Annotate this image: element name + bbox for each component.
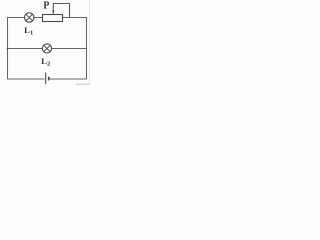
rheostat slider wire loop: [53, 4, 70, 18]
battery long plate (+): [45, 73, 47, 85]
rheostat P body: [43, 15, 63, 22]
wire middle branch right: [52, 48, 87, 50]
rheostat slider arrowhead: [52, 11, 54, 14]
wire left vertical: [7, 18, 9, 80]
components (darker): [7, 4, 70, 85]
wire bottom right: [50, 78, 87, 80]
faint scan edge right: [89, 0, 90, 85]
svg-text:P: P: [43, 1, 49, 12]
lamp L2: [42, 44, 51, 53]
plain connecting wires (lighter gray, scanned look): [7, 18, 87, 80]
faint scan edge bottom-right smudge: [76, 84, 90, 85]
wire top-left to lamp L1: [7, 17, 25, 19]
lamp L1: [25, 13, 34, 22]
battery short plate (-): [48, 77, 50, 81]
wire lamp L1 to rheostat: [34, 17, 43, 19]
wire middle branch left: [8, 48, 43, 50]
wire bottom left: [8, 78, 45, 80]
junction node left: [7, 48, 9, 50]
circuit schematic: two lamps L1, L2, rheostat P, battery: [0, 0, 90, 85]
wire rheostat to top-right corner and right vertical: [63, 18, 87, 80]
